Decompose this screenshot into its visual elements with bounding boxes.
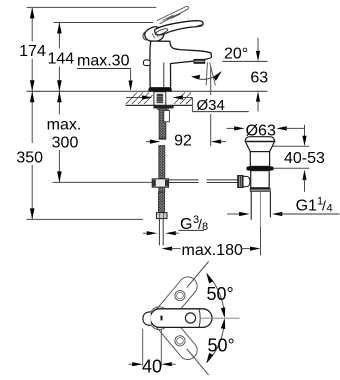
drain body lower	[251, 171, 270, 188]
dim max.180	[162, 247, 173, 251]
svg-text:8: 8	[202, 221, 208, 233]
extension line: max300 bottom ref	[52, 181, 152, 183]
arrowhead max300 top	[57, 91, 62, 102]
temperature stop tab	[143, 60, 150, 66]
svg-text:max.180: max.180	[182, 242, 243, 259]
dim G3/8	[143, 232, 149, 234]
50deg extension line lower	[187, 349, 209, 375]
flexible hose	[158, 192, 164, 212]
aerator	[194, 59, 206, 64]
label O34 with shelf	[191, 98, 193, 112]
tee bottom stub	[159, 187, 165, 192]
svg-text:174: 174	[19, 43, 46, 60]
svg-text:50°: 50°	[208, 336, 235, 356]
horseshoe washer and nut	[154, 105, 174, 108]
faucet body and spout	[150, 41, 211, 88]
deck hatching left	[126, 93, 153, 105]
rod side fitting	[164, 111, 170, 122]
dim 034 arrows at deck hole	[126, 97, 143, 99]
lever loop cutout	[154, 27, 168, 36]
drain body upper	[250, 152, 269, 167]
threaded fixing rod upper	[159, 108, 166, 138]
arc upper with arrows	[207, 274, 225, 317]
svg-text:20°: 20°	[224, 46, 248, 63]
base flange	[148, 88, 172, 92]
boss shading strokes	[152, 34, 155, 39]
arrowhead 144 top	[57, 23, 62, 34]
leader max.30 down arrow	[130, 69, 132, 83]
extension line: deck surface	[27, 90, 268, 92]
boss cap seam	[152, 42, 168, 44]
spout outlet extension line (92 ref)	[210, 66, 212, 95]
rod end cap	[159, 138, 167, 140]
lever front tip cap	[143, 312, 151, 325]
deck hatching right	[174, 93, 192, 105]
dim 40 extension lines	[142, 329, 144, 367]
dimension line 174/350 (x=32.2)	[31, 7, 33, 41]
dim O63 row	[227, 127, 238, 129]
drain centerline extension	[260, 227, 262, 256]
arrowhead 144 bottom	[57, 80, 62, 91]
lever top view pill body	[150, 309, 212, 328]
hose nut	[156, 213, 167, 219]
deck slab bottom line	[126, 104, 193, 106]
svg-text:40-53: 40-53	[284, 150, 325, 167]
svg-text:4: 4	[327, 203, 333, 215]
arrowhead 350 bottom	[30, 208, 35, 219]
svg-text:144: 144	[47, 50, 74, 67]
extension line: 350 bottom ref	[27, 218, 144, 220]
drain flange dome	[245, 137, 275, 142]
svg-text:40: 40	[142, 356, 162, 376]
svg-text:350: 350	[16, 149, 43, 166]
drain O-ring	[246, 166, 273, 170]
drain taper	[245, 142, 274, 152]
svg-text:G1: G1	[296, 198, 317, 215]
lever right seam	[199, 309, 200, 327]
dim 40-53 vertical	[304, 125, 306, 138]
arrowhead max300 bottom	[57, 171, 62, 182]
50deg extension line upper	[187, 262, 209, 288]
drain centerline	[259, 192, 261, 227]
svg-text:max.30: max.30	[77, 53, 130, 70]
dimension line 144/max300 (x=59.4)	[58, 23, 60, 49]
pivot tick	[161, 316, 163, 321]
lever tip shadow	[197, 25, 202, 27]
lever ring hole	[185, 313, 195, 323]
pop-up lever clevis	[243, 176, 250, 186]
arrowhead 174 top	[30, 7, 35, 18]
drain tailpipe	[250, 192, 252, 220]
arrowhead 174 bottom	[30, 80, 35, 91]
shank through deck	[154, 92, 166, 105]
svg-text:Ø34: Ø34	[197, 97, 225, 114]
svg-text:50°: 50°	[207, 284, 234, 304]
drain bottom flange	[250, 188, 271, 191]
centerline right	[200, 317, 240, 319]
svg-text:92: 92	[174, 133, 192, 150]
dim 92	[146, 141, 151, 143]
extension line: top of handle normal pos (144 ref)	[54, 22, 154, 24]
body inner line	[163, 63, 165, 88]
threaded rod lower segment	[159, 146, 165, 179]
dim G1 1/4 row	[227, 213, 241, 215]
phantom raised lever	[157, 6, 189, 23]
svg-text:63: 63	[250, 70, 268, 87]
lever boss	[145, 27, 164, 42]
svg-text:/: /	[322, 198, 326, 214]
dim 40 arrows	[129, 363, 135, 365]
20 deg swivel wedge lines	[206, 62, 207, 85]
boss left cap	[143, 32, 146, 40]
20 deg arc with arrows	[192, 72, 222, 80]
extension line: top of lever (174 ref)	[27, 6, 157, 8]
svg-text:300: 300	[52, 135, 79, 152]
pop-up lever serrated adjuster	[238, 175, 243, 187]
pop-up rod horizontal	[169, 179, 199, 181]
pop-up tee fitting	[152, 179, 168, 187]
lever handle	[155, 21, 204, 35]
arrowhead 350 top	[30, 91, 35, 102]
phantom lever rotated down 50deg	[146, 303, 201, 363]
svg-text:max.: max.	[47, 117, 82, 134]
phantom lever rotated up 50deg	[146, 273, 201, 333]
dim 63 vertical (x=258)	[257, 38, 259, 53]
arc lower with arrows	[207, 320, 225, 363]
connection pipe G3/8	[158, 219, 160, 246]
